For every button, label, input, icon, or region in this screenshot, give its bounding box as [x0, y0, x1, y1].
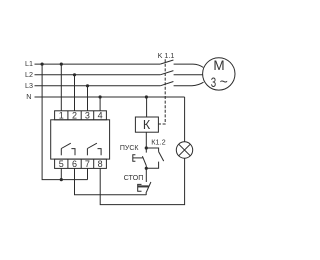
- node junction L1 terminal 1: [60, 63, 63, 66]
- node junction L2 terminal 2: [73, 73, 76, 76]
- contact K1.1 blade L3: [160, 82, 173, 86]
- wire L1 feed to terminals 5 and 7: [42, 64, 87, 180]
- svg-text:8: 8: [98, 159, 103, 169]
- pin number 4: [98, 110, 103, 120]
- svg-text:L3: L3: [25, 81, 33, 90]
- pin number 2: [72, 110, 77, 120]
- wire L3 to motor: [174, 82, 204, 86]
- wire terminal 7 stub: [87, 168, 89, 179]
- wire L1 to motor: [174, 64, 204, 67]
- svg-text:5: 5: [59, 159, 64, 169]
- net label N: [26, 92, 31, 101]
- contact K1.1 blade L1: [160, 60, 173, 64]
- svg-text:N: N: [26, 92, 31, 101]
- svg-text:1: 1: [59, 110, 64, 120]
- svg-text:4: 4: [98, 110, 103, 120]
- node B: [145, 167, 148, 170]
- pin number 7: [85, 159, 90, 169]
- wire terminal 8 to lamp: [100, 158, 184, 204]
- svg-text:~: ~: [220, 74, 228, 90]
- node junction L1 left drop: [41, 63, 44, 66]
- pin number 5: [59, 159, 64, 169]
- wire terminal 1 drop: [60, 64, 62, 111]
- wire terminal 4 drop: [99, 97, 101, 111]
- wire N drop to lamp: [184, 97, 186, 142]
- relay internal contact 1: [61, 143, 75, 155]
- relay U1 body: [51, 120, 110, 159]
- node A: [145, 146, 148, 149]
- node junction N terminal 4: [99, 95, 102, 98]
- net label L2: [25, 70, 33, 79]
- button PUSK (start, NO): [133, 148, 147, 168]
- svg-text:К: К: [143, 118, 151, 132]
- net label L1: [25, 59, 33, 68]
- relay internal contact 2: [87, 143, 101, 155]
- lamp HL1: [176, 142, 192, 158]
- node junction N coil K: [145, 95, 148, 98]
- wire terminal 3 drop: [87, 86, 89, 111]
- svg-text:СТОП: СТОП: [124, 173, 144, 182]
- svg-text:7: 7: [85, 159, 90, 169]
- pin number 1: [59, 110, 64, 120]
- button STOP (stop, NC): [138, 168, 151, 195]
- net label L3: [25, 81, 33, 90]
- svg-text:3: 3: [211, 74, 217, 90]
- svg-text:L1: L1: [25, 59, 33, 68]
- svg-text:K 1.1: K 1.1: [158, 51, 175, 60]
- pin number 6: [72, 159, 77, 169]
- wire terminal 5 stub: [60, 168, 62, 179]
- contact K1.1 label: [158, 51, 175, 60]
- node junction terminal 5 feed: [60, 178, 63, 181]
- terminal strip top 1-4: [55, 111, 107, 120]
- svg-text:ПУСК: ПУСК: [120, 145, 140, 152]
- wire L2 rail: [35, 74, 161, 76]
- motor M1: [203, 58, 235, 90]
- button STOP label: [124, 173, 144, 182]
- svg-text:2: 2: [72, 110, 77, 120]
- coil K box: [135, 117, 158, 132]
- node junction L3 terminal 3: [86, 84, 89, 87]
- wire coil K to node A: [145, 132, 147, 148]
- pin number 8: [98, 159, 103, 169]
- svg-text:L2: L2: [25, 70, 33, 79]
- pin number 3: [85, 110, 90, 120]
- coil K label: [143, 118, 151, 132]
- button PUSK label: [120, 145, 140, 152]
- svg-text:6: 6: [72, 159, 77, 169]
- wire N to coil K: [146, 97, 148, 117]
- contact K1.1 linkage (dashed): [159, 59, 166, 124]
- svg-text:К1.2: К1.2: [151, 138, 165, 147]
- terminal strip bottom 5-8: [55, 159, 107, 168]
- wire L2 to motor: [174, 74, 203, 76]
- wire terminal 6 to stop button: [75, 168, 147, 194]
- contact K1.2: [146, 148, 163, 168]
- wire L3 rail: [35, 85, 161, 87]
- svg-text:M: M: [213, 58, 224, 73]
- wire terminal 2 drop: [74, 75, 76, 111]
- contact K1.1 blade L2: [160, 71, 173, 75]
- wire L1 rail: [35, 63, 161, 65]
- svg-text:3: 3: [85, 110, 90, 120]
- wire N rail: [35, 96, 185, 98]
- contact K1.2 label: [151, 138, 165, 147]
